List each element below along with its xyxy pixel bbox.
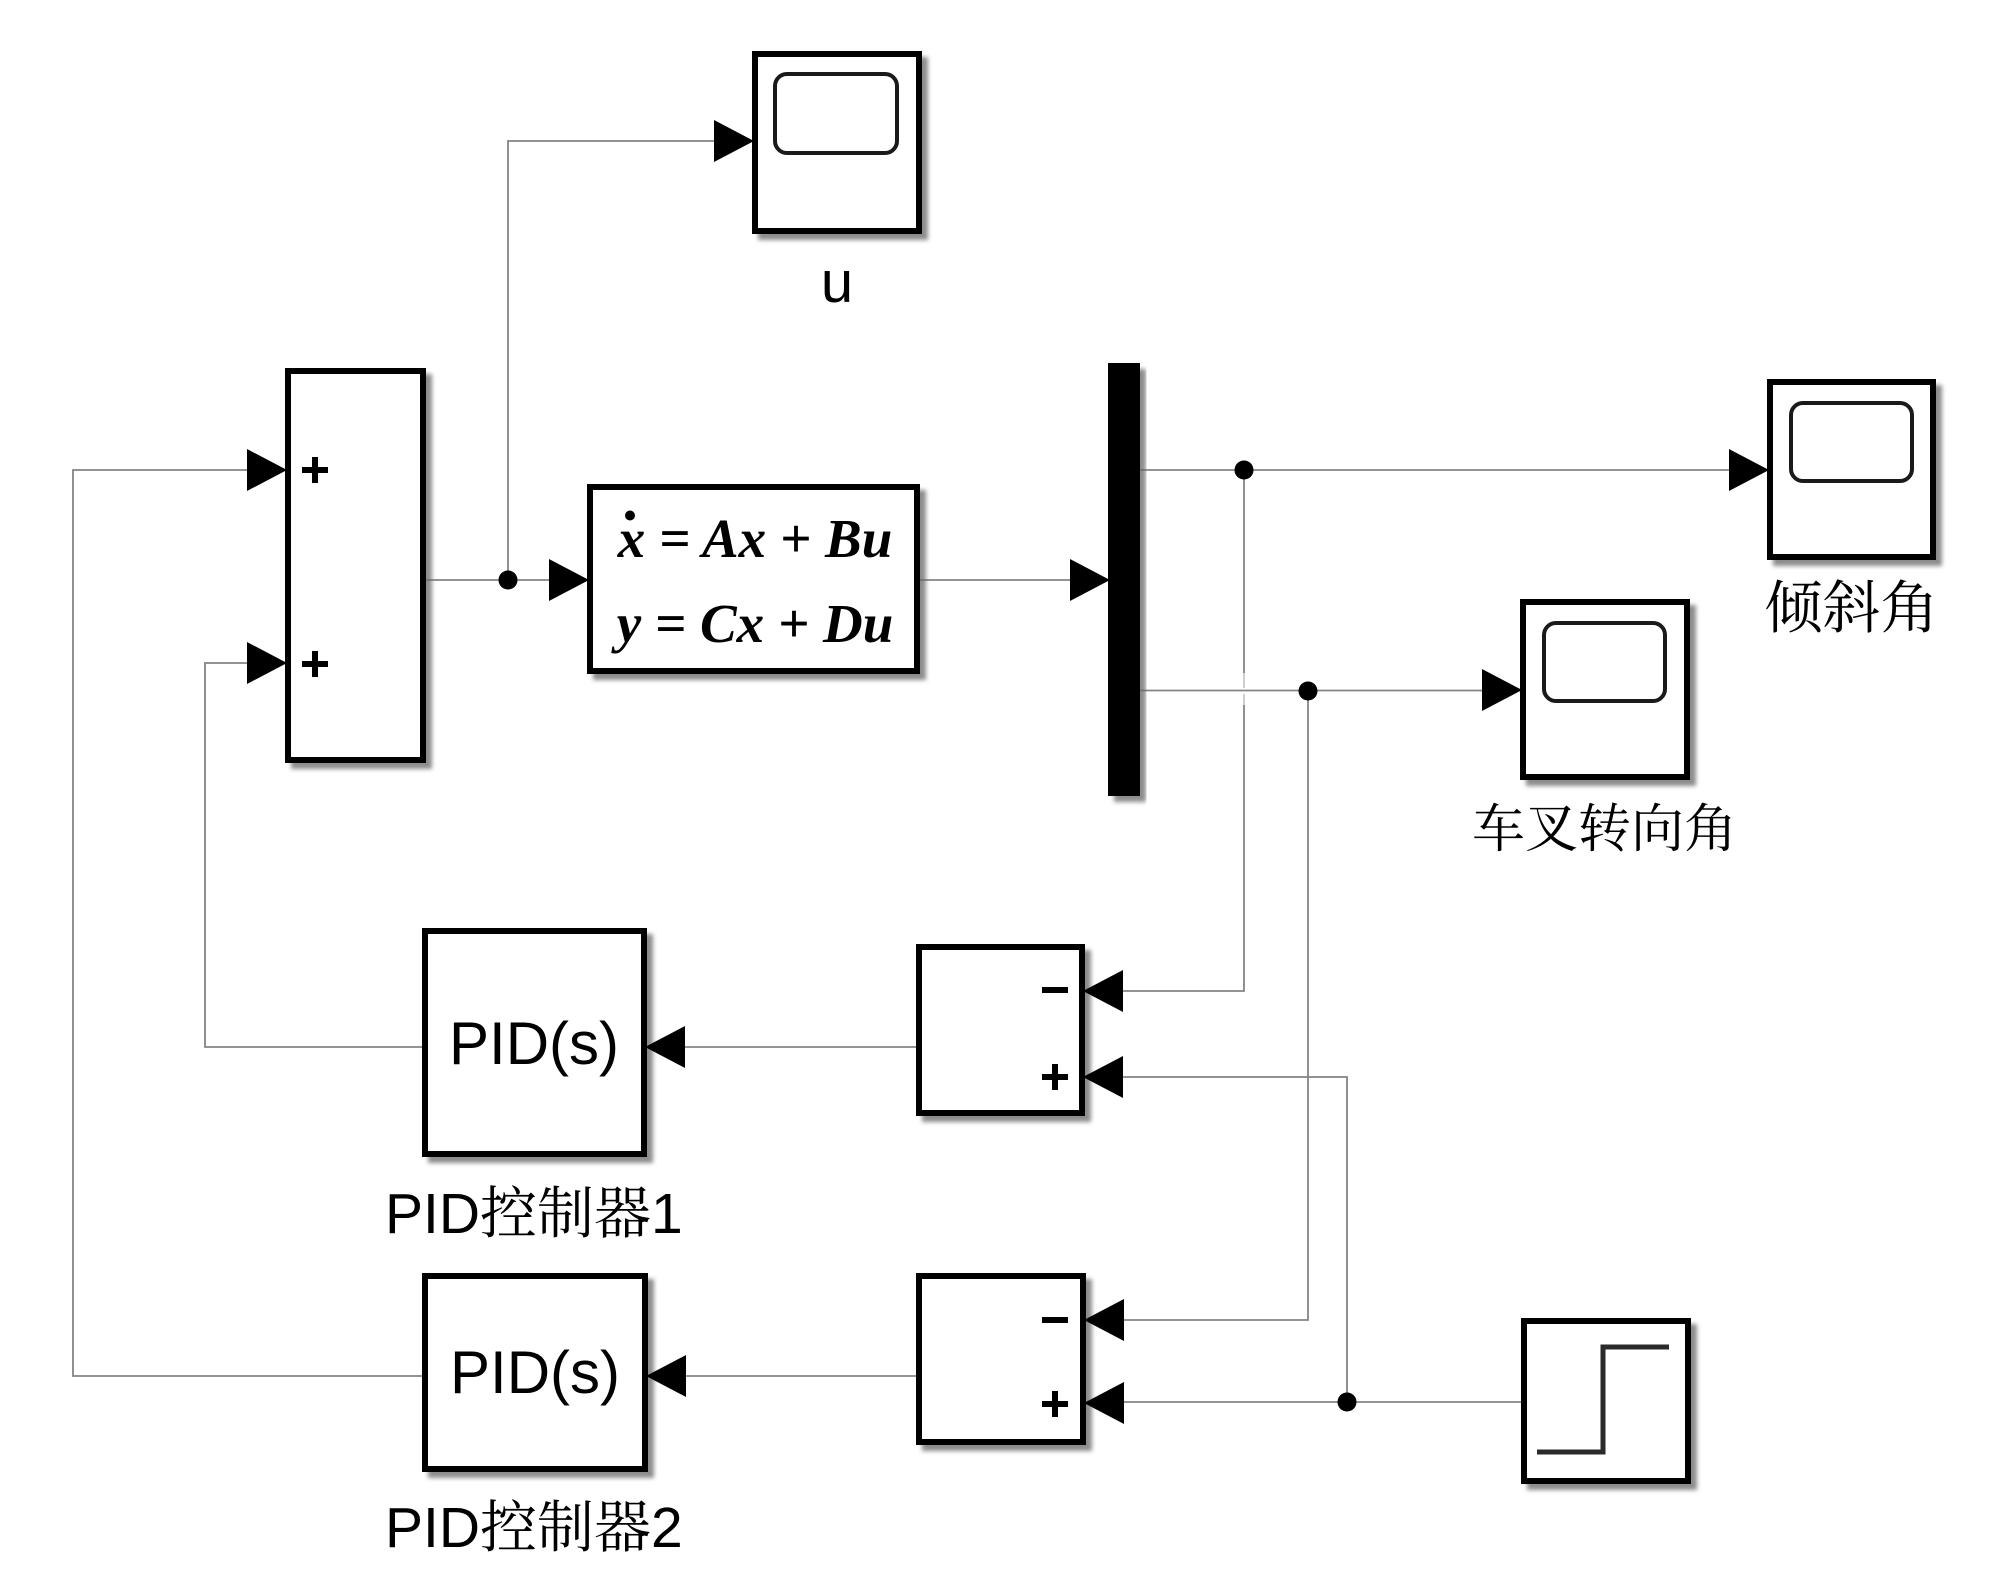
svg-text:u: u: [821, 250, 853, 315]
scope block 倾斜角: [1770, 382, 1933, 557]
arrowhead into Sum2 minus: [1083, 970, 1123, 1012]
svg-text:2: 2: [651, 1496, 683, 1560]
wire: state-space output to Demux input: [920, 579, 1108, 581]
svg-text:PID(s): PID(s): [449, 1010, 619, 1077]
sum block Sum2 (minus, plus inputs on right): [919, 947, 1082, 1113]
wire: Sum3 output to PID2 input: [648, 1375, 916, 1377]
node: branch dot after Sum1 output: [499, 571, 518, 590]
wire: branch up from node C to Sum2 plus input: [1085, 1077, 1347, 1402]
sum block Sum3 (minus, plus inputs on right): [919, 1276, 1083, 1442]
wire: Sum1 output to state-space input: [426, 579, 588, 581]
node C: branch dot on Step output: [1338, 1393, 1357, 1412]
wire: branch up to Scope u: [508, 141, 752, 580]
svg-text:1: 1: [651, 1182, 683, 1246]
state-space block ẋ=Ax+Bu, y=Cx+Du: [590, 487, 917, 671]
wire: branch down from node B to Sum3 minus input: [1086, 691, 1308, 1320]
node B: branch dot on Demux output 2: [1299, 682, 1318, 701]
PID controller block PID1: [425, 931, 644, 1154]
svg-text:PID: PID: [385, 1182, 480, 1246]
demux block (black bar): [1108, 363, 1140, 796]
arrowhead into Demux: [1070, 559, 1110, 601]
PID controller block PID2: [425, 1276, 645, 1469]
wire: PID2 output feedback to Sum1 first plus input: [73, 470, 422, 1376]
svg-text:PID(s): PID(s): [450, 1339, 620, 1406]
arrowhead into Scope 车叉转向角: [1482, 669, 1522, 711]
svg-text:y = Cx + Du: y = Cx + Du: [611, 593, 894, 654]
wire: Sum2 output to PID1 input: [647, 1046, 916, 1048]
step source block: [1524, 1321, 1688, 1481]
arrowhead into Scope u: [714, 120, 754, 162]
label PID控制器1: [385, 1182, 683, 1246]
arrowhead into Sum1 input 1: [247, 449, 287, 491]
label 车叉转向角: [1474, 802, 1731, 851]
node A: branch dot on Demux output 1: [1235, 461, 1254, 480]
arrowhead into Sum2 plus: [1083, 1056, 1123, 1098]
svg-text:PID: PID: [385, 1496, 480, 1560]
scope block 车叉转向角: [1523, 602, 1687, 777]
scope block u: [755, 54, 919, 231]
sum block Sum1 (two plus inputs): [288, 371, 423, 760]
wire: PID1 output feedback to Sum1 second plus input: [205, 663, 422, 1047]
arrowhead into PID2: [646, 1355, 686, 1397]
arrowhead into Sum3 plus: [1084, 1382, 1124, 1424]
label PID控制器2: [385, 1496, 683, 1560]
wire: Step output to Sum3 plus input: [1086, 1401, 1521, 1403]
arrowhead into Scope 倾斜角: [1729, 449, 1769, 491]
wire: Demux output 1 to Scope 倾斜角: [1140, 469, 1767, 471]
arrowhead into state-space: [549, 559, 589, 601]
arrowhead into PID1: [645, 1026, 685, 1068]
arrowhead into Sum3 minus: [1084, 1299, 1124, 1341]
label 倾斜角: [1766, 579, 1932, 632]
wire: Demux output 2 to Scope 车叉转向角: [1140, 690, 1520, 692]
svg-text:x = Ax + Bu: x = Ax + Bu: [617, 508, 893, 569]
wire: branch down from node A to Sum2 minus input: [1243, 470, 1245, 673]
arrowhead into Sum1 input 2: [247, 642, 287, 684]
